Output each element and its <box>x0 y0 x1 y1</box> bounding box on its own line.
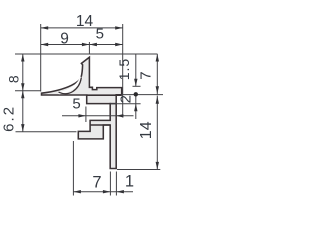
extension line at boss bottom (y=103.7) <box>110 103 141 105</box>
dimension 7 (bottom, hook to bar) <box>73 173 133 193</box>
dimension 8 (fin height, left) <box>6 54 25 91</box>
extension line at flange top right (y=86.3) <box>133 85 141 87</box>
extension line at fin right edge (x=89.4) <box>88 42 90 54</box>
svg-text:14: 14 <box>138 121 155 139</box>
extension line bar right wall (x=116.4) <box>115 172 117 196</box>
extension line at flange bottom (y=94.6) <box>122 94 163 96</box>
dimension 7 (right, peak to flange bottom) <box>137 54 159 94</box>
svg-text:7: 7 <box>137 71 154 79</box>
extension line bottom left (x=73.4) <box>72 141 74 196</box>
fold slot lower edge <box>59 78 81 94</box>
dimension 1.5 (flange thickness) <box>116 54 137 86</box>
extension line bar left wall (x=110.4) <box>109 172 111 196</box>
dimension 6.2 (left, tip to hook step) <box>0 91 24 132</box>
dimension 14 (right, bar height) <box>138 96 159 170</box>
svg-text:5: 5 <box>96 26 104 43</box>
fold slot channel between lip and fin (white gap) <box>60 78 82 93</box>
extrusion profile cross-section outline <box>42 57 122 168</box>
extension line at flange tip top (y=90.8) <box>15 90 41 92</box>
svg-text:7: 7 <box>92 173 101 191</box>
extension line at bar bottom (y=169.5) <box>117 169 160 171</box>
dimension 5 (fin to flange right end) <box>89 26 122 47</box>
dimension 1 (bar wall thickness) <box>116 173 134 194</box>
extension line at hook step (y=131.7) <box>16 131 77 133</box>
internal edge: web bottom across lug <box>90 124 111 126</box>
internal edge: boss bottom across bar <box>110 103 117 105</box>
dimension 14 (top overall width) <box>41 13 123 30</box>
dimension 5 (middle, boss width) <box>62 96 134 118</box>
dimension 2 (boss step below flange) <box>117 92 138 119</box>
svg-text:9: 9 <box>60 31 69 48</box>
extension line at fin peak (y=54) <box>15 53 158 55</box>
svg-text:8: 8 <box>6 75 22 83</box>
extension line left (x=40.7) for width dims <box>40 24 42 92</box>
extension line right (x=122.7) for width dims <box>122 24 124 118</box>
svg-text:5: 5 <box>72 96 80 113</box>
dimension 9 (tip to fin) <box>41 31 90 48</box>
internal edge: flange underside <box>87 94 122 96</box>
svg-text:6.2: 6.2 <box>0 105 17 132</box>
svg-text:1: 1 <box>125 173 134 191</box>
svg-text:14: 14 <box>76 13 94 30</box>
extension line at boss left edge (x=85.9) <box>85 107 87 123</box>
svg-text:1.5: 1.5 <box>116 58 132 80</box>
svg-text:2: 2 <box>117 95 134 103</box>
